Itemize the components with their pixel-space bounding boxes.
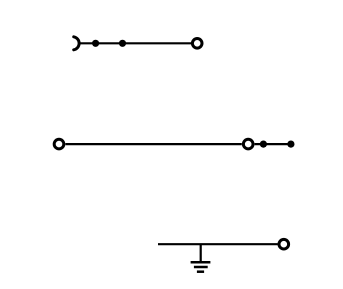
junction xyxy=(119,40,126,47)
wire xyxy=(65,143,241,145)
terminal xyxy=(54,139,64,149)
junction xyxy=(260,141,267,148)
terminal xyxy=(243,139,253,149)
ground xyxy=(191,244,211,272)
junction xyxy=(287,141,294,148)
wire xyxy=(255,143,291,145)
terminal xyxy=(279,239,289,249)
socket contact J1 xyxy=(74,37,79,50)
wire xyxy=(79,42,191,44)
wire xyxy=(158,243,278,245)
terminal xyxy=(192,39,202,49)
junction xyxy=(92,40,99,47)
